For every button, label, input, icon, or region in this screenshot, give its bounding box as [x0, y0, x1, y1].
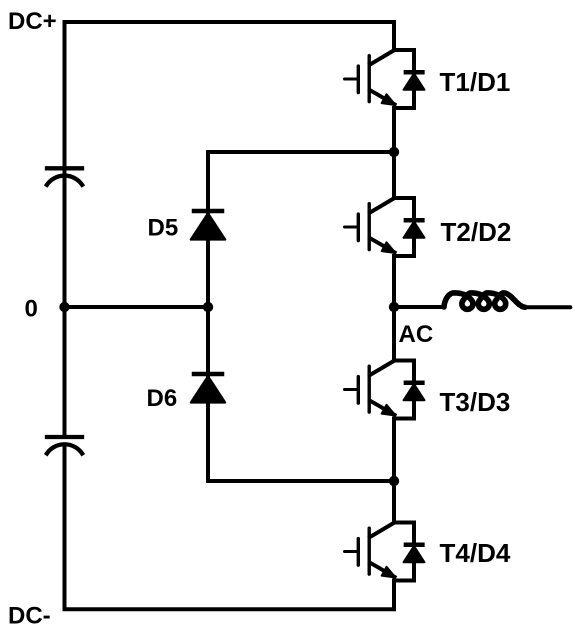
svg-text:DC+: DC+	[8, 8, 57, 35]
transistor T4 with diode D4	[345, 523, 425, 581]
svg-text:T2/D2: T2/D2	[441, 217, 512, 247]
wire clamp branch lower	[208, 307, 394, 481]
capacitor C1	[47, 168, 82, 185]
inductor L	[444, 293, 525, 309]
wire left rail lower segment to C2	[63, 307, 67, 437]
transistor T1 with diode D1	[345, 50, 425, 108]
transistor T2 with diode D2	[345, 198, 425, 256]
svg-text:T1/D1: T1/D1	[440, 67, 511, 97]
wire rail between T2 and T3	[392, 256, 396, 361]
svg-text:T4/D4: T4/D4	[440, 538, 511, 568]
wire left rail upper segment below C1	[63, 176, 67, 307]
node clamp mid	[203, 302, 213, 312]
svg-text:T3/D3: T3/D3	[440, 387, 511, 417]
svg-text:DC-: DC-	[8, 603, 51, 630]
node rail T1-T2 junction	[389, 147, 399, 157]
capacitor C2	[47, 437, 82, 454]
node rail T3-T4 junction	[389, 476, 399, 486]
wire DC+ top bus from left rail to right rail	[65, 22, 395, 176]
transistor T3 with diode D3	[345, 361, 425, 419]
clamp diode D5	[191, 211, 226, 240]
clamp diode D6	[191, 374, 226, 403]
node 0 on left rail	[59, 302, 69, 312]
wire AC output lead	[394, 305, 444, 309]
wire rail between T1 and T2	[392, 108, 396, 198]
wire DC- bottom bus	[65, 445, 395, 610]
node AC	[389, 302, 399, 312]
svg-text:D6: D6	[147, 385, 178, 412]
svg-text:D5: D5	[148, 215, 179, 242]
svg-text:AC: AC	[399, 321, 434, 348]
wire clamp branch top link to rail	[208, 152, 394, 307]
wire output right lead	[524, 305, 570, 309]
wire rail between T3 and T4	[392, 419, 396, 523]
svg-text:0: 0	[25, 296, 38, 323]
wire 0 to clamp branch	[65, 305, 209, 309]
